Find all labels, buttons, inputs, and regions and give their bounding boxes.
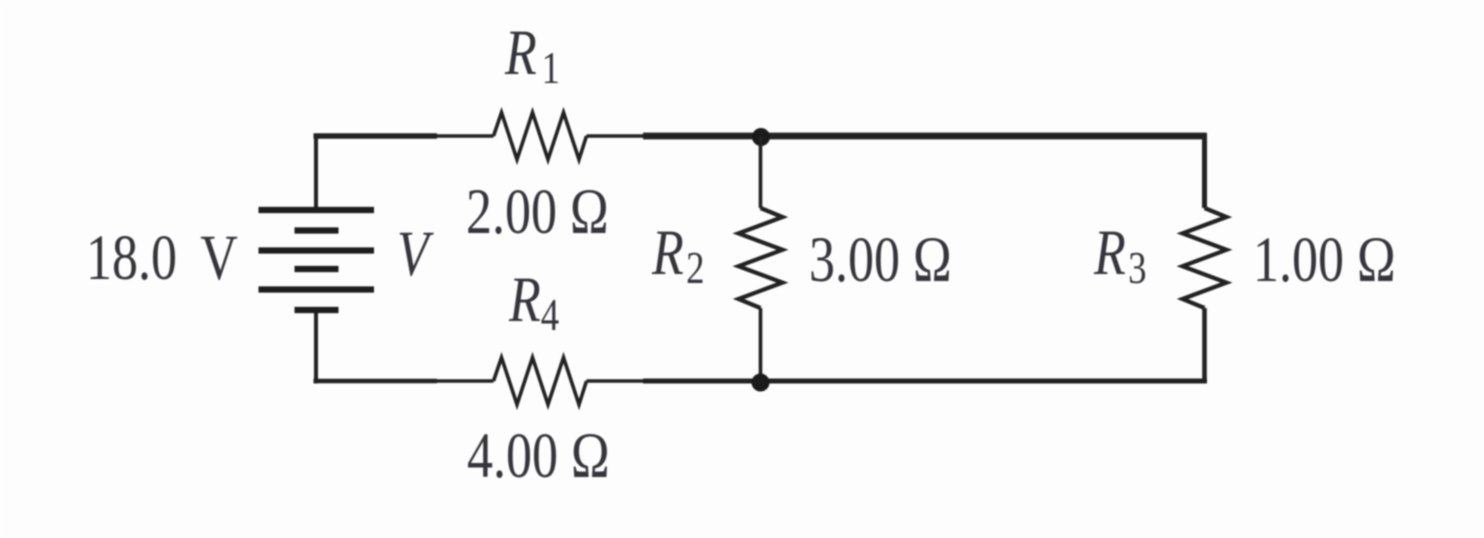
wire top-left vertical (battery + to top rail): [314, 134, 318, 211]
wire bottom rail lead out of R4: [587, 379, 644, 383]
node A (top junction dot): [752, 128, 770, 146]
wire bottom-left vertical (battery - to bottom rail): [314, 310, 318, 384]
wire top rail right segment: [643, 133, 1207, 140]
resistor R4: [494, 358, 587, 405]
svg-text:3.00 Ω: 3.00 Ω: [809, 224, 952, 296]
resistor R1: [494, 113, 587, 160]
svg-text:V: V: [397, 218, 434, 290]
svg-text:1.00 Ω: 1.00 Ω: [1253, 224, 1396, 296]
wire middle branch upper: [759, 136, 763, 208]
svg-text:18.0 V: 18.0 V: [86, 222, 238, 294]
wire bottom rail left segment: [314, 379, 438, 384]
resistor R3: [1183, 208, 1227, 308]
svg-text:2.00 Ω: 2.00 Ω: [466, 176, 609, 248]
node B (bottom junction dot): [752, 374, 770, 392]
resistor R2: [739, 208, 783, 308]
wire right branch upper: [1202, 133, 1207, 208]
wire right branch lower: [1202, 308, 1207, 384]
wire middle branch lower: [759, 308, 763, 381]
wire top rail lead into R1: [437, 134, 494, 138]
battery V (3-cell source): [259, 210, 375, 310]
wire bottom rail lead into R4: [437, 379, 494, 383]
wire bottom rail right segment: [643, 379, 1207, 384]
wire top rail lead out of R1: [587, 134, 644, 138]
svg-text:4.00 Ω: 4.00 Ω: [467, 420, 610, 492]
wire top rail left segment: [314, 133, 438, 138]
